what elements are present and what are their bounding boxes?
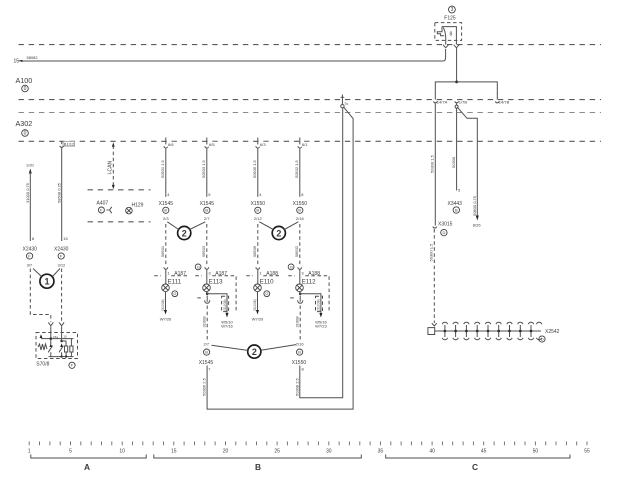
boundary dashed line A302 top (19, 112, 602, 114)
svg-text:X2430: X2430 (54, 247, 69, 253)
svg-text:50800 0.75: 50800 0.75 (472, 195, 477, 216)
connector X3015 (433, 221, 453, 236)
wire loop inner (from X1550 pin 8) (300, 108, 343, 398)
svg-text:B: B (455, 207, 458, 212)
ground strip connector 10 (536, 322, 541, 339)
lamp unit A188 / E110 (246, 267, 280, 291)
connector X2430 left pin 8 (23, 236, 38, 268)
svg-text:8/26: 8/26 (473, 223, 482, 228)
svg-text:15: 15 (63, 236, 68, 241)
control unit A407 / H129 box (88, 190, 151, 222)
boundary dashed line A100 (19, 99, 602, 101)
wire 50502 1.5 (294, 148, 304, 197)
connector X2430 right pin 15 (54, 236, 69, 268)
wire 50300 1.5 dashed to ground strip (428, 229, 437, 326)
svg-text:3/12: 3/12 (58, 263, 67, 268)
lamp unit A188 / E112 (288, 264, 329, 311)
svg-text:45: 45 (481, 449, 487, 455)
svg-text:X2430: X2430 (23, 247, 38, 253)
wire 50300 1.5 left column C (429, 103, 435, 225)
svg-text:14/7B: 14/7B (499, 99, 510, 104)
svg-text:30: 30 (326, 449, 332, 455)
svg-text:58501: 58501 (160, 245, 165, 257)
wire distribution horizontal under F125 (435, 82, 497, 94)
svg-text:58503: 58503 (201, 245, 206, 257)
svg-text:15: 15 (171, 449, 177, 455)
svg-text:B: B (298, 208, 301, 213)
svg-text:58502: 58502 (294, 245, 299, 257)
ground strip connector 6 (496, 322, 501, 339)
connector 6/6 at A302 (column E111) (164, 138, 177, 149)
svg-text:E111: E111 (168, 279, 182, 286)
svg-text:50506 1.5: 50506 1.5 (252, 159, 257, 178)
svg-text:50502 1.5: 50502 1.5 (294, 159, 299, 178)
svg-text:X3015: X3015 (438, 221, 453, 227)
svg-text:X1545: X1545 (199, 360, 214, 366)
svg-text:15: 15 (63, 335, 67, 339)
svg-text:D: D (443, 230, 446, 235)
svg-text:40: 40 (429, 449, 435, 455)
control unit A302 label (16, 119, 33, 137)
svg-text:B: B (205, 350, 208, 355)
svg-text:F125: F125 (444, 16, 456, 22)
connector 7c at A100 (loop return) (341, 95, 349, 108)
svg-text:50503 1.5: 50503 1.5 (201, 159, 206, 178)
ground strip connector 9 (528, 322, 533, 339)
svg-text:G: G (290, 264, 293, 269)
svg-text:X1545: X1545 (200, 201, 215, 207)
boundary dashed line top (component area F125) (19, 44, 602, 46)
svg-text:2: 2 (252, 347, 257, 357)
svg-text:2: 2 (182, 228, 187, 238)
ground strip connector 4 (475, 322, 480, 339)
ground strip connector 8 (518, 322, 523, 339)
svg-text:2/7: 2/7 (204, 342, 210, 347)
svg-text:B: B (255, 462, 261, 472)
connector X1545 pin 2/3 (159, 201, 174, 221)
wire 50501 1.5 (160, 148, 170, 197)
wire dashed to switch (left, jogged) (30, 269, 53, 326)
connector X1550 pin 2/16 (bottom) (292, 342, 307, 372)
ruler scale ticks (29, 442, 587, 446)
svg-text:B1/12: B1/12 (64, 141, 75, 146)
connector X3443 pin 5 (448, 188, 463, 214)
svg-text:A407: A407 (97, 201, 109, 207)
ground strip connector 5 (485, 322, 490, 339)
svg-text:2/3: 2/3 (163, 216, 169, 221)
svg-text:15: 15 (14, 59, 20, 65)
svg-text:2/16: 2/16 (296, 216, 305, 221)
svg-text:58082: 58082 (27, 55, 39, 60)
svg-text:6/5: 6/5 (209, 142, 215, 147)
svg-text:G: G (197, 264, 200, 269)
svg-text:W7/23: W7/23 (315, 323, 327, 328)
connector 1/7B at A100 (455, 99, 468, 108)
control unit A100 label (16, 76, 33, 92)
node splice marker 2 (bottom) (212, 345, 297, 359)
wire 31008 dashed to X1545 (202, 306, 208, 342)
wire circuit 15 horizontal (23, 49, 446, 61)
node circuit 15 feed arrow and label 58082 (14, 55, 39, 64)
wire branch to ground W5/16 W7/23 (299, 292, 328, 329)
wire 58502 dashed (294, 224, 300, 266)
svg-text:31000 0.75: 31000 0.75 (25, 182, 30, 203)
svg-text:2/7: 2/7 (204, 216, 210, 221)
svg-text:G: G (173, 291, 176, 296)
wire 50300 middle column C (451, 108, 457, 190)
fuse F125 (435, 6, 462, 44)
svg-text:50501 1.5: 50501 1.5 (160, 159, 165, 178)
junction dot (455, 81, 458, 84)
svg-text:B: B (256, 208, 259, 213)
ground strip connector 7 (507, 322, 512, 339)
svg-text:(31008): (31008) (161, 299, 165, 311)
wire 58501 dashed (160, 224, 166, 266)
svg-text:50: 50 (533, 449, 539, 455)
svg-text:3/7: 3/7 (27, 263, 33, 268)
svg-text:1/20: 1/20 (26, 162, 35, 167)
lamp unit A187 / E111 (154, 267, 188, 291)
svg-text:I-CAN: I-CAN (108, 161, 114, 175)
svg-text:E110: E110 (260, 279, 275, 286)
wire (31008) to ground W7/29 (252, 291, 270, 322)
ruler scale numbers (28, 449, 590, 455)
svg-text:31008: 31008 (295, 316, 300, 328)
svg-text:14/7A: 14/7A (437, 99, 448, 104)
svg-text:58506: 58506 (252, 245, 257, 257)
component A407 (97, 201, 112, 214)
wire branch to ground W5/10 W7/16 (206, 292, 234, 329)
svg-text:D: D (541, 336, 544, 341)
svg-text:E113: E113 (209, 279, 224, 286)
connector B1/12 at A302 (60, 141, 75, 147)
svg-text:2: 2 (276, 228, 281, 238)
wire dashed to switch (right) (59, 269, 64, 326)
svg-text:6/1: 6/1 (302, 142, 308, 147)
wire 50503 1.5 (201, 148, 211, 197)
svg-text:0: 0 (24, 131, 27, 137)
wire 50800 0.75 branch diagonal (458, 108, 482, 228)
svg-text:G: G (265, 291, 268, 296)
connector 14/7B at A100 (495, 93, 509, 104)
svg-text:1: 1 (28, 449, 31, 455)
svg-text:20: 20 (223, 449, 229, 455)
connector 14/7A at A100 (434, 93, 448, 104)
switch S70/8 (36, 327, 78, 369)
svg-text:15a: 15a (53, 335, 58, 339)
svg-text:2/12: 2/12 (254, 216, 263, 221)
wire 50306 2.5 label (202, 377, 207, 396)
svg-text:W7/29: W7/29 (252, 317, 264, 322)
svg-text:H129: H129 (132, 202, 144, 208)
svg-text:A302: A302 (16, 119, 33, 128)
CAN bus I-CAN dashed link (108, 142, 115, 189)
wire 58503 dashed (201, 224, 207, 266)
svg-text:X3443: X3443 (448, 201, 463, 207)
svg-text:(31008): (31008) (223, 299, 227, 311)
svg-text:2/16: 2/16 (296, 342, 305, 347)
svg-text:6/3: 6/3 (260, 142, 266, 147)
svg-text:50308 2.5: 50308 2.5 (294, 377, 299, 396)
svg-text:50300 1.5: 50300 1.5 (429, 154, 434, 173)
svg-text:B: B (205, 208, 208, 213)
svg-text:5: 5 (69, 449, 72, 455)
ground strip connector 2 (453, 322, 458, 339)
svg-text:6/6: 6/6 (168, 142, 174, 147)
ground strip connector 1 (442, 322, 447, 339)
svg-text:25: 25 (274, 449, 280, 455)
svg-text:X1550: X1550 (251, 201, 266, 207)
svg-text:50300 1.5: 50300 1.5 (428, 243, 433, 262)
svg-text:B: B (164, 208, 167, 213)
connector X1550 pin 2/12 (251, 201, 266, 221)
node splice marker 1 (33, 269, 60, 289)
svg-text:W7/16: W7/16 (221, 323, 233, 328)
svg-text:(31008): (31008) (253, 299, 257, 311)
section bracket B (154, 455, 361, 473)
inline connector below E112 (290, 296, 303, 304)
connector 6/3 at A302 (column E110) (256, 138, 269, 149)
svg-text:50300: 50300 (451, 156, 456, 168)
wire 50308 2.5 label (294, 377, 299, 396)
svg-text:35: 35 (378, 449, 384, 455)
svg-text:S70/8: S70/8 (36, 361, 49, 367)
inline connector below E113 (197, 296, 210, 304)
svg-text:A: A (84, 462, 90, 472)
svg-text:X1550: X1550 (292, 360, 307, 366)
connector 6/5 at A302 (column E113) (205, 138, 218, 149)
svg-text:C: C (472, 462, 478, 472)
lamp H129 (126, 202, 144, 214)
svg-text:(31008): (31008) (317, 299, 321, 311)
svg-text:50306 2.5: 50306 2.5 (202, 377, 207, 396)
connector pins of F125 at boundary (chevrons) (443, 45, 459, 48)
svg-text:58508 0.25: 58508 0.25 (56, 182, 61, 203)
connector X1550 pin 2/16 (293, 201, 308, 221)
boundary dashed line A302 bottom (19, 140, 602, 142)
svg-text:1: 1 (45, 277, 50, 287)
wire (31008) to ground W7/26 (160, 291, 178, 322)
lamp unit A187 / E113 (195, 264, 236, 311)
wire 58508 0.25 (56, 148, 61, 241)
svg-text:A100: A100 (16, 76, 33, 85)
wire 31008 dashed to X1550 (295, 306, 301, 342)
svg-text:E112: E112 (302, 279, 317, 286)
svg-text:1/7B: 1/7B (459, 99, 468, 104)
wire 58506 dashed (252, 224, 258, 266)
svg-text:X1545: X1545 (159, 201, 174, 207)
wire 50506 1.5 (252, 148, 262, 197)
wire loop outer (from X1545 pin 7) (207, 107, 353, 409)
ground strip X2542 terminal block (428, 328, 541, 335)
connector X1545 pin 2/7 (200, 201, 215, 221)
wire 31000 0.75 with up arrow to 1/20 (25, 162, 35, 241)
svg-text:31008: 31008 (202, 316, 207, 328)
svg-text:B: B (298, 350, 301, 355)
section bracket A (31, 455, 146, 473)
section bracket C (386, 455, 570, 473)
connector label X2542 (539, 329, 560, 342)
svg-text:55: 55 (584, 449, 590, 455)
svg-text:X2542: X2542 (545, 329, 560, 335)
svg-text:10: 10 (119, 449, 125, 455)
connector X1545 pin 2/7 (bottom) (199, 342, 214, 372)
node splice marker 2 (167, 222, 205, 240)
node splice marker 2 (259, 222, 298, 240)
connector 6/1 at A302 (column E112) (298, 138, 311, 149)
ground strip connector 3 (464, 322, 469, 339)
svg-text:W7/26: W7/26 (160, 317, 172, 322)
wire F125 right pin down (456, 48, 458, 82)
svg-text:8: 8 (450, 32, 453, 38)
svg-text:0: 0 (24, 86, 27, 92)
svg-text:3: 3 (451, 7, 454, 13)
svg-text:X1550: X1550 (293, 201, 308, 207)
svg-text:7c: 7c (344, 101, 348, 106)
